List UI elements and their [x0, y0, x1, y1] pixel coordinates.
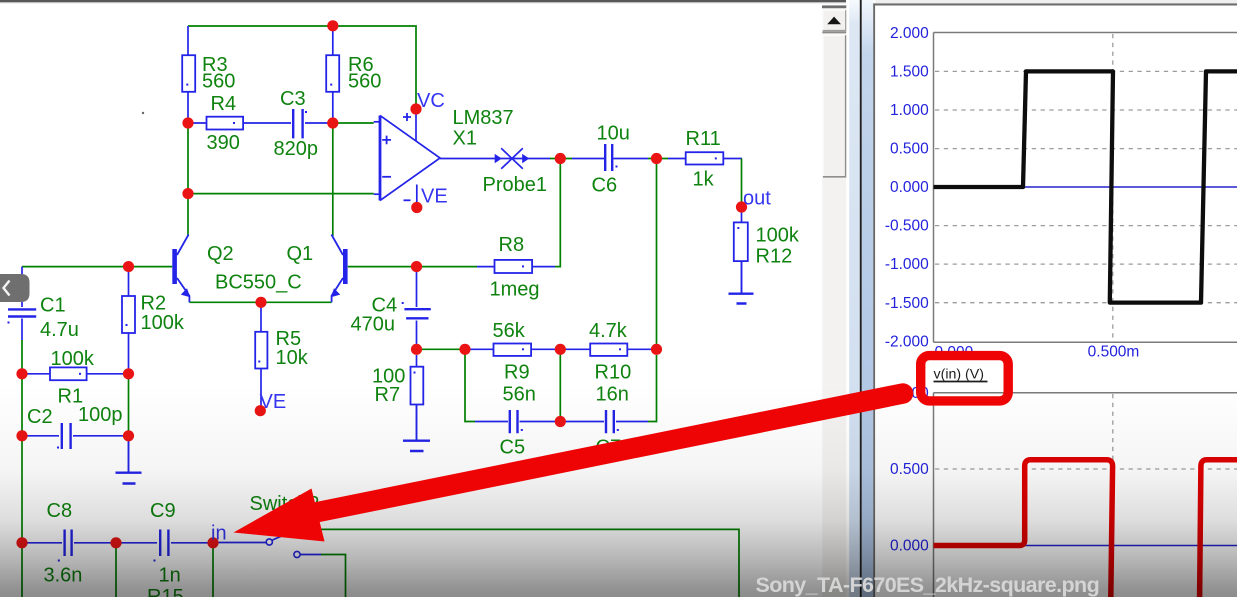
resistor R3 — [182, 55, 195, 92]
wire R11 left lead — [668, 158, 686, 160]
svg-text:1.500: 1.500 — [890, 64, 929, 81]
wire C3 node to op-amp +in — [338, 122, 374, 124]
scrollbar top border line — [822, 5, 847, 8]
resistor body marks — [8, 84, 740, 562]
wire R9 right lead — [531, 348, 555, 350]
top plot black square-wave trace v(out) — [934, 71, 1237, 302]
svg-text:560: 560 — [202, 71, 235, 93]
wire R1 right lead — [87, 373, 124, 375]
junction Q2 base node — [123, 261, 134, 272]
wire R7 top lead — [416, 355, 418, 367]
svg-text:C3: C3 — [280, 88, 306, 110]
wire R1 left lead — [27, 373, 50, 375]
wire out node to R12 — [741, 212, 743, 223]
wire VC pin of op-amp — [415, 114, 417, 141]
top plot y-axis labels — [885, 25, 929, 350]
junction C3/R6 node — [327, 117, 338, 128]
wire C4 node to R9 node — [422, 348, 460, 350]
wire R5 top lead — [260, 307, 262, 332]
wire op-amp -in stub — [374, 193, 379, 195]
node VE under R5 — [255, 405, 266, 416]
player back tab — [0, 274, 30, 302]
capacitor C4 — [404, 309, 430, 318]
svg-text:VE: VE — [421, 186, 448, 208]
svg-text:390: 390 — [207, 132, 240, 154]
splitter: right blue strip — [862, 0, 873, 597]
wire C6 right junction column x656 down to R10 node — [656, 164, 658, 345]
wire C5 left lead — [475, 421, 508, 423]
wire C8 right lead — [74, 542, 111, 544]
svg-text:0.500: 0.500 — [890, 141, 929, 158]
svg-text:0.000: 0.000 — [890, 179, 929, 196]
junction C5/C7 mid — [555, 416, 566, 427]
wire Q2/Q1 common emitter rail — [189, 301, 331, 303]
annotation red arrow head — [234, 489, 325, 542]
wire long loop from switch to right — [308, 529, 739, 597]
resistor R5 — [255, 332, 267, 369]
svg-text:820p: 820p — [274, 138, 319, 160]
svg-text:R8: R8 — [499, 234, 525, 256]
transistor Q1 (BC550_C) — [331, 235, 348, 303]
junction top rail / R6 — [327, 20, 338, 31]
wire: top supply rail VC net — [188, 26, 416, 104]
resistor R10 — [590, 344, 627, 356]
wire VE pin of op-amp — [416, 185, 418, 204]
svg-text:-1.500: -1.500 — [885, 295, 929, 312]
junction C2 left — [16, 430, 27, 441]
wire feedback column x560 probe junction down to R8 — [555, 164, 560, 267]
svg-text:2.000: 2.000 — [890, 25, 929, 42]
annotation red arrow shaft — [318, 394, 903, 513]
wire C2 right lead — [73, 435, 123, 437]
svg-text:C1: C1 — [40, 295, 66, 317]
wire R9 left node down to C5 loop — [465, 354, 475, 422]
wire R2 bottom lead — [128, 333, 130, 369]
svg-text:R10: R10 — [595, 362, 632, 384]
wire Q1 base — [348, 266, 411, 268]
probe Probe1 — [494, 148, 530, 169]
svg-text:56k: 56k — [493, 320, 526, 342]
svg-text:10k: 10k — [276, 347, 309, 369]
wire C4 bottom lead — [416, 321, 418, 345]
svg-text:Probe1: Probe1 — [483, 174, 548, 196]
junction R1 right / R2 — [123, 368, 134, 379]
capacitor C1 — [8, 309, 36, 316]
scrollbar track — [822, 8, 846, 597]
bottom plot frame — [934, 393, 1237, 597]
ground under R12 — [729, 294, 754, 304]
node VC pin dot — [410, 103, 421, 114]
wire down to out node — [741, 159, 743, 203]
wire R11 right lead to corner — [723, 158, 742, 160]
svg-text:4.7u: 4.7u — [40, 319, 79, 341]
wire mid node column between R9/R10 down — [559, 354, 561, 422]
wire C2 node to ground — [128, 441, 130, 472]
wire R2 top lead — [128, 272, 130, 296]
annotation red highlight box around v(in) legend — [921, 356, 1009, 401]
capacitor C3 — [293, 109, 302, 138]
wire R3 top lead — [187, 26, 189, 55]
svg-text:R9: R9 — [504, 362, 530, 384]
svg-text:470u: 470u — [351, 314, 396, 336]
junction C4 bottom / R7 — [411, 344, 422, 355]
junction R10 right — [651, 344, 662, 355]
splitter: dark line — [860, 0, 862, 597]
scrollbar up button — [822, 10, 846, 32]
svg-text:-2.000: -2.000 — [885, 333, 929, 350]
scrollbar up arrow — [827, 17, 841, 25]
svg-text:C6: C6 — [592, 175, 618, 197]
bottom video gradient overlay — [0, 385, 1237, 597]
capacitor C7 — [606, 410, 614, 433]
node in dot — [207, 537, 218, 548]
wire C7 left lead — [566, 421, 605, 423]
resistor R12 — [734, 222, 748, 261]
svg-text:0.500m: 0.500m — [1088, 344, 1140, 361]
wire R8 to Q1 base junction — [422, 266, 477, 268]
node out dot — [736, 201, 747, 212]
svg-text:BC550_C: BC550_C — [215, 272, 302, 294]
wire R8 right lead — [532, 266, 555, 268]
wire C8 left lead — [27, 542, 62, 544]
svg-text:v(in) (V): v(in) (V) — [934, 367, 984, 383]
top plot x-axis labels — [935, 344, 1140, 362]
diagram window background — [875, 6, 1237, 597]
op-amp U1 LM837 X1 — [380, 113, 440, 201]
capacitor C6 — [605, 144, 612, 171]
wire C7 right lead — [616, 421, 648, 423]
svg-text:Sony_TA-F670ES_2kHz-square.png: Sony_TA-F670ES_2kHz-square.png — [756, 573, 1100, 597]
svg-text:LM837: LM837 — [453, 107, 514, 129]
wire C5 right lead — [520, 421, 556, 423]
wire throw contact lead — [301, 554, 322, 556]
svg-text:100k: 100k — [756, 225, 800, 247]
resistor R7 — [411, 367, 424, 405]
svg-text:1k: 1k — [693, 169, 715, 191]
svg-text:Q1: Q1 — [287, 243, 314, 265]
wire C9 left lead — [121, 542, 157, 544]
svg-text:X1: X1 — [453, 128, 477, 150]
wire Q1 base junction to C4 — [416, 272, 418, 307]
capacitor C9 — [160, 530, 168, 557]
wire R10 left lead — [566, 348, 591, 350]
junction C8/C9 — [110, 537, 121, 548]
junction feedback node x188 — [182, 188, 193, 199]
wire left column x22 down — [21, 340, 23, 597]
switch Switch2 lever — [273, 528, 300, 540]
svg-text:10u: 10u — [597, 123, 630, 145]
bottom plot dashed gridlines — [935, 394, 1237, 597]
junction R3/R4 node — [182, 117, 193, 128]
junction R1 left — [16, 368, 27, 379]
junction C2 right — [123, 430, 134, 441]
junction C8 left — [16, 537, 27, 548]
wire green stubs at probe output junction — [550, 158, 572, 160]
svg-text:R11: R11 — [686, 128, 721, 150]
svg-text:1meg: 1meg — [490, 279, 540, 301]
wire R1/C2 right column — [128, 379, 130, 431]
svg-text:Q2: Q2 — [207, 243, 234, 265]
svg-text:-1.000: -1.000 — [885, 256, 929, 273]
video top edge bar — [0, 0, 846, 2]
wire R3 bottom lead — [187, 92, 189, 118]
top plot frame — [934, 33, 1237, 343]
switch Switch2 throw contact — [294, 551, 300, 557]
node VE pin dot — [411, 202, 422, 213]
ground under C2 node — [116, 473, 142, 484]
splitter: left blue strip — [849, 0, 860, 597]
resistor R6 — [326, 55, 339, 92]
svg-text:-0.500: -0.500 — [885, 218, 929, 235]
wire R6 bottom lead — [332, 92, 334, 118]
resistor R2 — [122, 296, 135, 333]
wire C1 top lead — [21, 267, 23, 307]
transistor Q2 (BC550_C) — [172, 235, 190, 303]
splitter: white gap — [846, 0, 849, 597]
resistor R1 — [50, 367, 87, 380]
bottom plot y-axis labels — [890, 385, 929, 554]
wire op-amp +in stub — [374, 121, 379, 123]
capacitor C8 — [65, 530, 72, 557]
svg-text:4.7k: 4.7k — [589, 320, 628, 342]
resistor R4 — [207, 117, 244, 130]
bottom plot blue zero line — [934, 545, 1237, 547]
top plot dashed horizontal gridlines — [935, 34, 1237, 342]
wire R6 top lead — [332, 26, 334, 55]
junction R9 left — [459, 344, 470, 355]
wire junction to C6 left plate — [572, 158, 604, 160]
wire Probe1 to C6 node — [530, 158, 551, 160]
svg-text:R4: R4 — [211, 93, 237, 115]
wire throw net down — [321, 555, 346, 597]
resistor R9 — [494, 344, 532, 356]
wire in node to switch pole — [219, 542, 267, 544]
junction C6/R11 node — [651, 153, 662, 164]
diagram window left border — [873, 3, 875, 597]
scrollbar thumb — [822, 35, 846, 178]
wire Q2 base row left — [22, 266, 123, 268]
wire R9 left lead — [470, 348, 494, 350]
scrollbar button bottom shadow — [822, 31, 846, 33]
wire R5 bottom lead to VE — [260, 369, 262, 407]
wire R12 to ground — [741, 261, 743, 293]
junction Q1 base / R8 node — [411, 261, 422, 272]
svg-text:100k: 100k — [141, 312, 185, 334]
wire R10 right lead — [627, 348, 651, 350]
wire R8 left lead — [477, 266, 495, 268]
junction emitter rail / R5 — [255, 297, 266, 308]
wire Q1 collector column x332 — [332, 128, 334, 236]
junction R9/R10 mid — [555, 344, 566, 355]
svg-text:100k: 100k — [51, 348, 95, 370]
ground under R7 — [403, 441, 430, 451]
capacitor C2 — [62, 423, 71, 449]
wire C2 left lead — [27, 435, 59, 437]
bottom plot red square-wave trace v(in) — [934, 460, 1237, 597]
wire column below in node — [212, 548, 214, 597]
resistor R11 — [686, 152, 724, 164]
svg-text:VC: VC — [417, 90, 445, 112]
junction probe output node — [555, 153, 566, 164]
stray speck — [142, 112, 144, 114]
wire R4 row blue — [193, 122, 328, 124]
top plot dashed vertical gridline 0.500m — [1112, 34, 1114, 342]
svg-text:1.000: 1.000 — [890, 102, 929, 119]
wire feedback row to op-amp -in — [188, 193, 374, 195]
top plot blue zero line — [934, 186, 1237, 188]
diagram window white above top border — [875, 0, 1237, 3]
wire C1 bottom lead — [21, 319, 23, 341]
wire R10 right node down to C7 corner — [648, 355, 657, 422]
switch Switch2 pole contact — [266, 539, 272, 545]
svg-text:out: out — [743, 188, 771, 210]
svg-text:R12: R12 — [756, 246, 793, 268]
wire column below C8/C9 junction — [115, 548, 117, 597]
svg-text:560: 560 — [348, 71, 381, 93]
wire R7 bottom lead to ground — [416, 405, 418, 440]
diagram window top border — [873, 3, 1237, 5]
wire C9 right lead to in node — [171, 542, 208, 544]
resistor R8 — [495, 260, 533, 273]
wire op-amp output to Probe1 — [440, 158, 494, 160]
wire C6 right plate to R11 node — [614, 158, 649, 160]
capacitor C5 — [510, 410, 518, 433]
wire base junction to Q2 — [134, 266, 172, 268]
wire feedback node column x188 — [187, 128, 189, 236]
wire green stubs at C6 right junction — [648, 158, 668, 160]
